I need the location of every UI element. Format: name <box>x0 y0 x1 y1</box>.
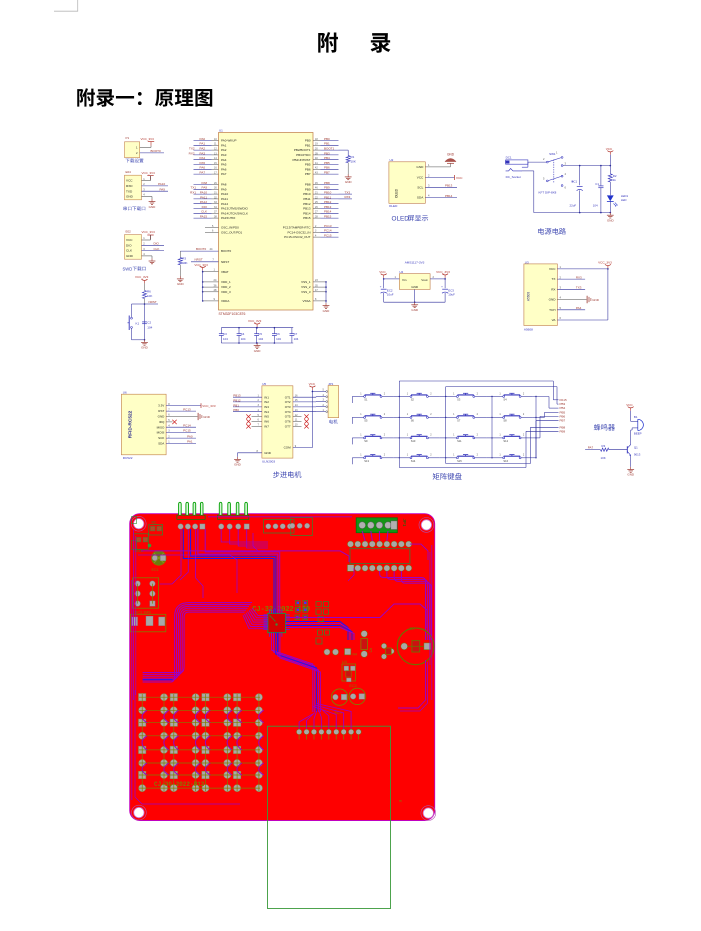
svg-text:2: 2 <box>384 392 386 395</box>
resistor R6 10K <box>143 291 147 299</box>
svg-text:RX: RX <box>551 287 555 291</box>
svg-text:E02: E02 <box>126 230 132 234</box>
svg-text:104: 104 <box>147 325 152 329</box>
svg-text:PA2: PA2 <box>200 147 206 151</box>
svg-text:GND: GND <box>549 298 557 302</box>
component LED1 top-left <box>134 534 149 550</box>
pushbutton S10 <box>399 437 410 439</box>
svg-text:BOOT0: BOOT0 <box>196 247 207 251</box>
svg-text:2: 2 <box>323 404 325 407</box>
svg-text:C6: C6 <box>276 332 280 336</box>
svg-text:BEEP: BEEP <box>634 431 642 435</box>
svg-text:GND: GND <box>416 165 424 169</box>
big purple bus bundle with corner <box>143 603 252 682</box>
svg-text:+: + <box>441 284 443 288</box>
svg-text:BOOT0: BOOT0 <box>151 149 162 153</box>
svg-text:1: 1 <box>143 236 145 240</box>
svg-text:PB1: PB1 <box>305 143 311 147</box>
svg-text:S10: S10 <box>411 439 416 443</box>
svg-text:2: 2 <box>433 275 435 279</box>
U5 pad row 1 <box>347 541 353 547</box>
wire SDA net PB14 <box>425 197 457 199</box>
svg-text:PC15-OSC32_OUT: PC15-OSC32_OUT <box>284 235 311 239</box>
svg-text:1: 1 <box>560 265 562 269</box>
label 蜂鸣器 <box>594 424 601 431</box>
svg-text:VCC: VCC <box>606 147 613 151</box>
svg-text:2: 2 <box>523 454 525 457</box>
svg-text:104: 104 <box>294 337 299 341</box>
svg-text:PB6: PB6 <box>324 166 330 170</box>
svg-text:VCC: VCC <box>549 267 556 271</box>
trace from U5 rows to right <box>410 544 428 560</box>
svg-text:6: 6 <box>565 186 567 190</box>
svg-text:PC13: PC13 <box>183 407 191 411</box>
svg-text:PB12: PB12 <box>233 398 241 402</box>
ground R1 <box>347 163 349 175</box>
wire TCH net PA4 <box>557 309 585 311</box>
svg-text:1: 1 <box>499 413 501 416</box>
svg-text:IN5: IN5 <box>264 415 269 419</box>
svg-text:4: 4 <box>143 252 145 256</box>
svg-text:2: 2 <box>384 434 386 437</box>
svg-text:PB14: PB14 <box>324 210 332 214</box>
svg-text:RX1: RX1 <box>190 191 196 195</box>
svg-text:2: 2 <box>477 454 479 457</box>
net labels PA8-PA15 <box>194 184 212 186</box>
U5 pad row 2 <box>347 565 354 572</box>
svg-text:PB10: PB10 <box>324 191 332 195</box>
svg-text:VCC_3V3: VCC_3V3 <box>248 319 262 323</box>
svg-text:PB9: PB9 <box>560 429 566 433</box>
mounting hole TL <box>131 516 146 531</box>
switch DC1 pads cluster <box>133 578 159 608</box>
svg-text:OLED: OLED <box>392 216 410 223</box>
svg-text:1: 1 <box>214 268 216 272</box>
wire RX net TX3 <box>557 288 585 290</box>
U3 fingerprint connector top-left-of-center <box>291 518 313 536</box>
svg-text:OT1: OT1 <box>285 395 291 399</box>
svg-text:PA7: PA7 <box>588 446 594 450</box>
pushbutton S13 <box>352 457 363 459</box>
green motor connector top-right <box>356 518 397 533</box>
ground reset <box>144 339 146 341</box>
svg-text:1: 1 <box>360 454 362 457</box>
svg-text:DC1: DC1 <box>506 155 512 159</box>
svg-text:RFID-RC522: RFID-RC522 <box>128 410 134 438</box>
wires OT5-OT7 unused X <box>293 416 302 418</box>
small silk squares mid-right <box>316 602 321 607</box>
svg-text:PA6: PA6 <box>221 167 227 171</box>
mounting hole TR <box>419 518 434 533</box>
svg-text:1: 1 <box>453 392 455 395</box>
antenna fan traces <box>299 714 313 729</box>
svg-text:COM: COM <box>284 446 292 450</box>
svg-text:STM32F103C8T6: STM32F103C8T6 <box>219 312 246 316</box>
svg-text:NRST: NRST <box>195 258 203 262</box>
svg-text:2: 2 <box>143 242 145 246</box>
svg-text:U1: U1 <box>219 128 223 132</box>
svg-text:VCC: VCC <box>379 270 386 274</box>
svg-text:TX3: TX3 <box>345 190 351 194</box>
svg-text:2: 2 <box>384 454 386 457</box>
svg-text:PC14: PC14 <box>324 229 332 233</box>
svg-text:1: 1 <box>323 409 325 412</box>
svg-text:PB9: PB9 <box>305 187 311 191</box>
svg-text:PB0: PB0 <box>324 137 330 141</box>
svg-text:RX2: RX2 <box>189 151 195 155</box>
U5 silkscreen outline <box>350 549 410 564</box>
svg-text:104: 104 <box>258 337 263 341</box>
svg-text:VCC_3V3: VCC_3V3 <box>142 171 156 175</box>
MCU fan traces left <box>252 608 268 616</box>
svg-text:104: 104 <box>223 337 228 341</box>
svg-text:C7: C7 <box>294 332 298 336</box>
svg-text:SCL: SCL <box>417 185 423 189</box>
svg-text:PA9: PA9 <box>160 188 166 192</box>
svg-text:E04: E04 <box>126 170 132 174</box>
keypad top bus <box>398 381 400 397</box>
svg-text:9013: 9013 <box>634 452 641 456</box>
svg-text:PA1: PA1 <box>221 143 227 147</box>
component R2 top-left <box>149 525 163 536</box>
pushbutton S3 <box>445 396 456 398</box>
svg-text:CLK: CLK <box>201 210 207 214</box>
svg-text:PA5: PA5 <box>221 163 227 167</box>
svg-text:2: 2 <box>430 392 432 395</box>
ground U5 <box>237 457 239 460</box>
svg-text:PB8: PB8 <box>324 181 330 185</box>
svg-text:OSC_OUT/PD1: OSC_OUT/PD1 <box>221 230 243 234</box>
wire E04 VCC <box>142 180 151 182</box>
net labels PB8-PB15 <box>321 184 339 186</box>
wire DC to SW1 <box>528 161 546 163</box>
svg-text:44: 44 <box>210 247 213 251</box>
svg-text:LED: LED <box>621 198 627 202</box>
long horizontal trace upper <box>141 551 349 562</box>
svg-text:PB0: PB0 <box>233 408 239 412</box>
svg-text:104: 104 <box>276 337 281 341</box>
svg-text:+: + <box>380 284 382 288</box>
svg-text:RX3: RX3 <box>345 195 351 199</box>
svg-text:S11: S11 <box>457 439 462 443</box>
svg-text:4: 4 <box>560 296 562 300</box>
svg-text:2: 2 <box>428 174 430 178</box>
svg-text:TXD: TXD <box>126 189 133 193</box>
svg-text:PB1: PB1 <box>324 142 330 146</box>
wire GND pin8 <box>238 452 262 454</box>
svg-text:1k: 1k <box>613 178 617 182</box>
svg-text:1: 1 <box>499 434 501 437</box>
MCU fan traces up (blue bus) <box>183 529 274 613</box>
pushbutton S16 <box>491 457 502 459</box>
svg-text:GND: GND <box>264 451 272 455</box>
wire COM to VCC <box>293 447 313 449</box>
keypad row wires <box>351 396 353 398</box>
wire P1 pin1 to VCC <box>140 146 151 148</box>
svg-text:PA10: PA10 <box>221 192 228 196</box>
svg-text:5: 5 <box>323 389 325 392</box>
svg-text:S7: S7 <box>457 419 461 423</box>
svg-text:PB12: PB12 <box>324 200 332 204</box>
pin header group 1 <box>179 502 182 515</box>
svg-text:OLED: OLED <box>389 204 398 208</box>
right edge vertical traces <box>431 545 433 700</box>
svg-text:R2: R2 <box>152 521 157 525</box>
svg-text:C2: C2 <box>147 321 151 325</box>
capacitor EC2 10uF <box>383 279 385 288</box>
keypad column wires <box>398 397 400 458</box>
svg-text:GND: GND <box>126 254 134 258</box>
trace bundle right side down <box>380 571 426 640</box>
svg-text:PC15: PC15 <box>324 234 332 238</box>
svg-text:2: 2 <box>143 182 145 186</box>
svg-text:PB13: PB13 <box>445 184 453 188</box>
svg-text:3.3V: 3.3V <box>158 404 164 408</box>
svg-text:SCK: SCK <box>158 436 164 440</box>
pushbutton S5 <box>352 416 363 418</box>
svg-text:GND: GND <box>141 346 149 350</box>
svg-text:CLK: CLK <box>126 249 133 253</box>
wire buzzer to Q1 <box>630 430 632 445</box>
svg-text:IN2: IN2 <box>264 400 269 404</box>
label 下载设置 <box>126 159 130 163</box>
svg-text:VSS_2: VSS_2 <box>301 285 311 289</box>
DC socket pads <box>130 614 166 632</box>
svg-text:VDDA: VDDA <box>221 299 229 303</box>
svg-text:10K: 10K <box>601 456 606 460</box>
pushbutton S4 <box>491 396 502 398</box>
svg-text:S4: S4 <box>503 398 507 402</box>
pushbutton S6 <box>399 416 410 418</box>
svg-text:4: 4 <box>143 193 145 197</box>
wire R6 to node <box>144 299 146 305</box>
wire Vout <box>430 278 445 280</box>
wire MISO net PC14 <box>166 426 196 428</box>
svg-text:1: 1 <box>499 392 501 395</box>
label 电机 <box>329 420 333 424</box>
svg-text:S13: S13 <box>364 459 369 463</box>
svg-text:SDA: SDA <box>417 196 424 200</box>
label 串口下载口 <box>123 206 127 210</box>
svg-text:GND: GND <box>126 195 134 199</box>
component R5 <box>361 631 368 638</box>
svg-text:S3: S3 <box>457 398 461 402</box>
wire E02 VCC <box>142 239 151 241</box>
svg-text:C1: C1 <box>595 182 599 186</box>
svg-text:NRST: NRST <box>149 300 157 304</box>
svg-text:PA0-WKUP: PA0-WKUP <box>221 139 236 143</box>
svg-text:KFT DIP-8X8: KFT DIP-8X8 <box>539 190 557 194</box>
svg-text:24: 24 <box>214 278 217 282</box>
svg-text:S5: S5 <box>364 419 368 423</box>
svg-text:2: 2 <box>477 413 479 416</box>
svg-text:104: 104 <box>241 337 246 341</box>
svg-text:TCH: TCH <box>549 308 555 312</box>
svg-text:VCC: VCC <box>626 403 633 407</box>
wire GND rail <box>384 301 445 303</box>
svg-text:IRQ: IRQ <box>159 420 165 424</box>
svg-text:PB11: PB11 <box>303 197 310 201</box>
wire JP1 pin5 to VCC rail <box>312 391 325 393</box>
svg-text:U4: U4 <box>399 270 403 274</box>
svg-text:VSS_1: VSS_1 <box>301 280 311 284</box>
svg-text:GND: GND <box>411 308 419 312</box>
svg-text:VCC_3V3: VCC_3V3 <box>135 275 149 279</box>
svg-text:S8: S8 <box>503 419 507 423</box>
svg-text:PB15: PB15 <box>324 215 332 219</box>
svg-text:R5: R5 <box>369 648 373 652</box>
svg-text:1: 1 <box>453 413 455 416</box>
svg-text:1: 1 <box>556 151 558 155</box>
svg-text:S16: S16 <box>503 459 508 463</box>
svg-text:PB7: PB7 <box>324 171 330 175</box>
svg-text:GND: GND <box>234 463 242 467</box>
svg-text:2: 2 <box>523 392 525 395</box>
svg-text:VDD_1: VDD_1 <box>221 280 231 284</box>
svg-text:1: 1 <box>499 454 501 457</box>
resistor R2 1k <box>608 174 612 182</box>
svg-text:GND: GND <box>203 415 211 419</box>
svg-text:2: 2 <box>477 434 479 437</box>
svg-text:RXD: RXD <box>126 184 133 188</box>
svg-text:TX: TX <box>552 277 556 281</box>
svg-text:NRST: NRST <box>221 260 229 264</box>
capacitor C4 104 <box>238 328 240 334</box>
svg-text:3: 3 <box>560 286 562 290</box>
svg-text:RX3: RX3 <box>576 275 582 279</box>
wire GND earth right <box>557 299 586 301</box>
svg-text:S15: S15 <box>457 459 462 463</box>
svg-text:OT2: OT2 <box>285 400 291 404</box>
svg-text:TX1: TX1 <box>190 186 196 190</box>
heading 附录一：原理图 <box>77 88 95 106</box>
wire Vin <box>383 278 385 279</box>
pushbutton K1 <box>132 303 145 305</box>
svg-text:VSS_3: VSS_3 <box>301 290 311 294</box>
svg-text:PB14: PB14 <box>303 211 311 215</box>
svg-text:OT6: OT6 <box>285 420 291 424</box>
svg-text:K1: K1 <box>136 321 140 325</box>
PCB board outline <box>130 514 435 821</box>
svg-text:A5608: A5608 <box>527 292 531 301</box>
svg-text:PB10: PB10 <box>303 192 311 196</box>
keypad S-curve traces <box>142 710 147 722</box>
svg-text:EC2: EC2 <box>349 684 356 688</box>
trace to buzzer <box>350 603 352 605</box>
top edge horizontal trace <box>208 516 352 518</box>
svg-text:GND: GND <box>592 298 600 302</box>
svg-text:10uF: 10uF <box>448 293 455 297</box>
traces header group1 down <box>160 529 181 584</box>
svg-text:VCC_3V3: VCC_3V3 <box>141 137 155 141</box>
svg-text:PA14/JTCK/SWCLK: PA14/JTCK/SWCLK <box>221 211 248 215</box>
svg-text:PA8: PA8 <box>221 183 227 187</box>
svg-text:PA11: PA11 <box>221 197 228 201</box>
keypad pad grid <box>139 694 146 701</box>
wire CLK <box>142 250 165 252</box>
svg-text:VCC_3V3: VCC_3V3 <box>598 260 612 264</box>
svg-text:PB13: PB13 <box>303 207 311 211</box>
svg-text:ULN2003: ULN2003 <box>262 460 275 464</box>
wire TXD net PA9 <box>142 190 169 192</box>
svg-text:VCC_3V3: VCC_3V3 <box>142 230 156 234</box>
svg-text:B1: B1 <box>410 626 416 631</box>
svg-text:C5: C5 <box>258 332 262 336</box>
svg-text:VDD_2: VDD_2 <box>221 285 231 289</box>
page margin crop mark <box>77 0 79 11</box>
svg-text:U5: U5 <box>262 382 266 386</box>
MCU pin stubs (pcb) <box>264 614 268 616</box>
wire VSS bus to ground <box>325 282 327 303</box>
svg-text:OLED: OLED <box>395 188 399 198</box>
wire MOSI net PC15 <box>166 432 196 434</box>
svg-text:PB2/BOOT1: PB2/BOOT1 <box>294 148 311 152</box>
svg-text:3: 3 <box>565 161 567 165</box>
svg-text:PB7: PB7 <box>305 172 311 176</box>
net labels PC13-PC15 <box>321 227 339 229</box>
svg-text:PB1: PB1 <box>233 403 239 407</box>
blue trace keypad top <box>143 679 173 681</box>
svg-text:DIO: DIO <box>202 205 208 209</box>
svg-text:U2: U2 <box>390 158 394 162</box>
svg-text:C4: C4 <box>241 332 245 336</box>
svg-text:BOOT0: BOOT0 <box>221 249 232 253</box>
svg-text:GND: GND <box>411 285 419 289</box>
svg-text:PA1: PA1 <box>200 142 206 146</box>
wire GND + ground <box>142 255 153 257</box>
label 矩阵键盘 <box>433 473 440 480</box>
svg-text:S6: S6 <box>411 419 415 423</box>
svg-text:VBAT: VBAT <box>221 270 229 274</box>
capacitor C7 104 <box>291 328 293 334</box>
svg-text:S2: S2 <box>411 398 415 402</box>
PCB antenna outline (extends below board) <box>268 726 391 908</box>
svg-text:OT4: OT4 <box>285 410 291 414</box>
resistor R3 10K (BOOT0 pulldown) <box>179 251 181 258</box>
svg-text:10K: 10K <box>351 159 356 163</box>
svg-text:PA3: PA3 <box>221 153 227 157</box>
svg-text:DC_Socket: DC_Socket <box>506 175 521 179</box>
wire OLED GND to earth <box>425 166 450 168</box>
svg-text:MOSI: MOSI <box>157 431 165 435</box>
svg-text:U4: U4 <box>342 659 348 664</box>
wire SDA net PA1 <box>166 442 196 444</box>
svg-text:PB5: PB5 <box>305 163 311 167</box>
svg-text:PB0: PB0 <box>305 139 311 143</box>
svg-text:PB3/JTDO: PB3/JTDO <box>296 153 311 157</box>
svg-text:PA13/JTMS/SWDIO: PA13/JTMS/SWDIO <box>221 207 248 211</box>
left edge vertical traces <box>133 530 135 700</box>
svg-text:1: 1 <box>360 434 362 437</box>
wire vcc to R6 <box>144 283 146 290</box>
mounting hole BL <box>132 805 147 820</box>
svg-text:GND: GND <box>447 152 455 156</box>
capacitor C6 104 <box>273 328 275 334</box>
svg-text:1: 1 <box>407 413 409 416</box>
svg-text:PB9: PB9 <box>324 186 330 190</box>
pushbutton S11 <box>445 437 456 439</box>
svg-text:IN3: IN3 <box>264 405 269 409</box>
svg-text:IN4: IN4 <box>264 410 269 414</box>
svg-text:BOOT1: BOOT1 <box>324 147 335 151</box>
svg-text:22uF: 22uF <box>570 203 577 207</box>
svg-text:AMS1117-3V3: AMS1117-3V3 <box>405 260 425 264</box>
wire U3 VCC and VA <box>557 268 608 270</box>
svg-text:5: 5 <box>543 176 545 180</box>
wire node down to C2 and bottom <box>144 304 146 340</box>
pushbutton S14 <box>399 457 410 459</box>
svg-text:4: 4 <box>428 194 430 198</box>
